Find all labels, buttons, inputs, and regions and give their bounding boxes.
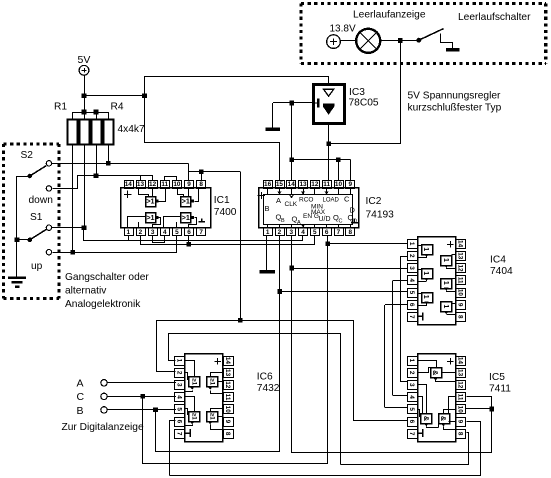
svg-text:B: B xyxy=(281,218,285,224)
svg-text:&: & xyxy=(439,416,448,421)
svg-text:B: B xyxy=(77,405,84,417)
svg-text:14: 14 xyxy=(457,240,464,248)
svg-text:9: 9 xyxy=(187,181,191,188)
svg-text:3: 3 xyxy=(175,383,182,387)
svg-text:&: & xyxy=(431,370,440,375)
svg-text:13: 13 xyxy=(224,369,231,377)
svg-text:2: 2 xyxy=(139,229,143,236)
svg-text:7: 7 xyxy=(337,229,341,236)
svg-text:LOAD: LOAD xyxy=(323,198,340,204)
svg-text:7400: 7400 xyxy=(214,207,237,218)
svg-text:8: 8 xyxy=(224,432,231,436)
svg-text:5V Spannungsregler: 5V Spannungsregler xyxy=(408,91,501,102)
svg-text:11: 11 xyxy=(224,394,231,401)
svg-text:1: 1 xyxy=(442,304,451,308)
svg-text:≥1: ≥1 xyxy=(208,413,214,420)
svg-text:1: 1 xyxy=(127,229,131,236)
svg-text:7: 7 xyxy=(199,229,203,236)
svg-text:4: 4 xyxy=(163,229,167,236)
svg-text:3: 3 xyxy=(408,266,415,270)
svg-text:12: 12 xyxy=(457,264,464,272)
svg-text:IC6: IC6 xyxy=(257,371,273,382)
svg-text:11: 11 xyxy=(323,181,330,188)
svg-text:&: & xyxy=(422,416,431,421)
svg-text:1: 1 xyxy=(442,281,451,285)
svg-text:IC4: IC4 xyxy=(490,255,506,266)
svg-text:4: 4 xyxy=(175,395,182,399)
svg-text:9: 9 xyxy=(224,420,231,424)
svg-text:6: 6 xyxy=(325,229,329,236)
svg-text:IC5: IC5 xyxy=(489,372,505,383)
svg-text:R1: R1 xyxy=(54,102,67,113)
svg-text:15: 15 xyxy=(276,181,284,188)
svg-text:CLK: CLK xyxy=(285,201,298,208)
svg-text:8: 8 xyxy=(199,181,203,188)
svg-text:2: 2 xyxy=(278,229,282,236)
svg-text:5: 5 xyxy=(408,407,415,411)
svg-text:down: down xyxy=(29,195,53,206)
svg-text:6: 6 xyxy=(408,303,415,307)
svg-text:10: 10 xyxy=(173,181,181,188)
svg-text:13: 13 xyxy=(457,369,464,377)
svg-text:5V: 5V xyxy=(78,54,91,66)
svg-text:kurzschlußfester Typ: kurzschlußfester Typ xyxy=(408,103,502,114)
svg-text:3: 3 xyxy=(151,229,155,236)
svg-text:8: 8 xyxy=(457,315,464,319)
svg-text:C: C xyxy=(77,391,85,403)
svg-text:14: 14 xyxy=(288,181,296,188)
svg-text:R4: R4 xyxy=(111,102,124,113)
svg-text:4: 4 xyxy=(408,395,415,399)
svg-text:7: 7 xyxy=(408,315,415,319)
svg-text:6: 6 xyxy=(175,420,182,424)
svg-text:74193: 74193 xyxy=(366,209,395,220)
svg-text:7: 7 xyxy=(175,432,182,436)
svg-text:Gangschalter oder: Gangschalter oder xyxy=(65,272,149,283)
svg-text:1: 1 xyxy=(442,258,451,262)
svg-text:4: 4 xyxy=(408,278,415,282)
svg-text:U/D: U/D xyxy=(319,216,331,223)
svg-text:10: 10 xyxy=(224,406,231,414)
svg-text:7404: 7404 xyxy=(490,266,513,277)
svg-text:4: 4 xyxy=(301,229,305,236)
svg-text:Zur Digitalanzeige: Zur Digitalanzeige xyxy=(62,422,144,433)
svg-text:1: 1 xyxy=(422,271,431,275)
svg-text:2: 2 xyxy=(408,371,415,375)
svg-text:A: A xyxy=(276,196,281,205)
svg-text:5: 5 xyxy=(408,291,415,295)
svg-text:1: 1 xyxy=(408,359,415,363)
svg-text:12: 12 xyxy=(224,381,231,389)
svg-text:1: 1 xyxy=(422,247,431,251)
svg-text:78C05: 78C05 xyxy=(349,97,379,108)
svg-text:C: C xyxy=(344,195,350,204)
svg-text:3: 3 xyxy=(408,383,415,387)
svg-text:EN G: EN G xyxy=(303,213,319,220)
svg-text:10: 10 xyxy=(457,289,464,297)
svg-text:IC2: IC2 xyxy=(366,196,382,207)
svg-text:8: 8 xyxy=(457,432,464,436)
svg-text:A: A xyxy=(297,220,301,226)
svg-text:>1: >1 xyxy=(182,213,190,222)
svg-text:S2: S2 xyxy=(21,150,34,161)
svg-text:13: 13 xyxy=(457,252,464,260)
svg-text:7432: 7432 xyxy=(257,383,280,394)
svg-text:13: 13 xyxy=(137,181,145,188)
svg-text:9: 9 xyxy=(348,181,352,188)
svg-text:12: 12 xyxy=(311,181,319,188)
svg-text:RCO: RCO xyxy=(299,197,313,204)
svg-text:5: 5 xyxy=(313,229,317,236)
svg-text:>1: >1 xyxy=(146,197,154,206)
svg-text:5: 5 xyxy=(175,229,179,236)
svg-text:11: 11 xyxy=(161,181,168,188)
svg-text:Leerlaufanzeige: Leerlaufanzeige xyxy=(353,10,426,21)
svg-text:5: 5 xyxy=(175,407,182,411)
svg-text:Leerlaufschalter: Leerlaufschalter xyxy=(458,12,531,23)
svg-text:Analogelektronik: Analogelektronik xyxy=(65,299,141,310)
svg-text:1: 1 xyxy=(175,359,182,363)
svg-text:≥1: ≥1 xyxy=(208,378,214,385)
svg-text:7411: 7411 xyxy=(489,384,511,395)
svg-text:13: 13 xyxy=(299,181,307,188)
svg-text:11: 11 xyxy=(457,277,464,284)
svg-text:1: 1 xyxy=(422,295,431,299)
svg-text:9: 9 xyxy=(457,420,464,424)
svg-text:S1: S1 xyxy=(30,212,43,223)
svg-text:12: 12 xyxy=(149,181,157,188)
svg-text:13.8V: 13.8V xyxy=(330,24,356,35)
svg-text:>1: >1 xyxy=(182,197,190,206)
svg-text:≥1: ≥1 xyxy=(190,413,196,420)
svg-text:4x4k7: 4x4k7 xyxy=(118,124,146,135)
svg-text:12: 12 xyxy=(457,381,464,389)
svg-text:>1: >1 xyxy=(146,213,154,222)
svg-text:11: 11 xyxy=(457,394,464,401)
svg-text:7: 7 xyxy=(408,432,415,436)
svg-text:up: up xyxy=(31,261,43,272)
svg-text:14: 14 xyxy=(125,181,133,188)
svg-text:2: 2 xyxy=(408,254,415,258)
svg-text:10: 10 xyxy=(335,181,343,188)
svg-text:C: C xyxy=(339,219,343,225)
svg-text:8: 8 xyxy=(348,229,352,236)
svg-text:14: 14 xyxy=(224,357,231,365)
svg-text:2: 2 xyxy=(175,371,182,375)
svg-text:16: 16 xyxy=(264,181,272,188)
svg-text:A: A xyxy=(77,378,84,390)
svg-text:6: 6 xyxy=(187,229,191,236)
svg-text:IC1: IC1 xyxy=(214,195,230,206)
svg-text:14: 14 xyxy=(457,357,464,365)
svg-text:6: 6 xyxy=(408,420,415,424)
svg-text:IC3: IC3 xyxy=(349,87,365,98)
svg-text:alternativ: alternativ xyxy=(65,286,107,297)
svg-text:B: B xyxy=(265,204,270,213)
svg-text:10: 10 xyxy=(457,406,464,414)
svg-text:1: 1 xyxy=(266,229,270,236)
svg-text:≥1: ≥1 xyxy=(190,378,196,385)
svg-text:9: 9 xyxy=(457,303,464,307)
svg-text:1: 1 xyxy=(408,242,415,246)
svg-text:3: 3 xyxy=(289,229,293,236)
